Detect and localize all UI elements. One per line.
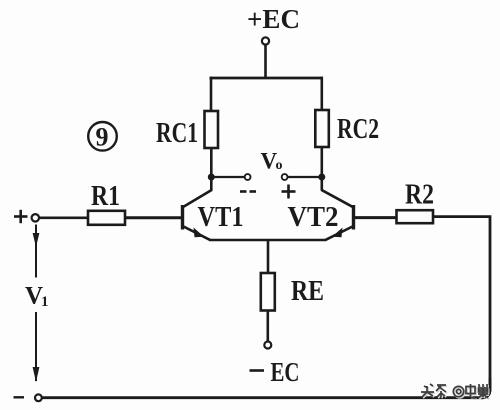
terminal output left [245, 174, 251, 180]
bottom minus sign [14, 396, 25, 398]
wire RC1 top [210, 77, 213, 111]
wire RC2 bottom [320, 147, 323, 191]
arrow VT2 emitter [332, 228, 343, 238]
node junction left collector [208, 174, 215, 181]
wire input to R1 [39, 217, 88, 220]
label Vo [261, 149, 283, 174]
svg-text:RC1: RC1 [156, 117, 198, 149]
resistor R1 [88, 211, 125, 225]
terminal +EC [262, 37, 269, 44]
transistor VT2 [321, 190, 353, 240]
arrow Vi lower [33, 367, 40, 382]
arrow Vi upper [33, 233, 40, 247]
wire Vi lower segment [35, 312, 37, 381]
svg-text:R1: R1 [91, 181, 120, 212]
svg-text:o: o [276, 158, 283, 173]
watermark 头条@电巢 [419, 378, 490, 399]
arrow VT1 emitter [194, 228, 205, 238]
label Vi [25, 283, 49, 311]
terminal output right [282, 174, 288, 180]
wire RC1 bottom [210, 148, 213, 191]
svg-text:VT2: VT2 [288, 202, 339, 233]
wire bottom rail [42, 396, 484, 399]
polarity plus mark [282, 185, 296, 199]
terminal input top [32, 214, 39, 221]
polarity minus marks [240, 190, 256, 193]
svg-text:1: 1 [41, 294, 49, 310]
transistor VT1 [183, 190, 213, 240]
wire emitter tap [267, 240, 270, 273]
wire top rail [210, 77, 323, 80]
svg-text:9: 9 [96, 123, 109, 152]
wire base VT2 [355, 216, 397, 219]
wire base VT1 [125, 216, 182, 219]
svg-text:RE: RE [291, 275, 324, 307]
resistor RC1 [205, 111, 219, 148]
terminal -EC [264, 342, 271, 349]
svg-text:EC: EC [271, 357, 300, 387]
wire RE bottom [266, 311, 269, 342]
wire +EC down [264, 45, 267, 78]
resistor RE [261, 273, 275, 311]
wire output right [288, 176, 322, 178]
wire output left [211, 176, 244, 178]
wire RC2 top [320, 77, 323, 110]
input plus sign [14, 210, 28, 223]
svg-text:R2: R2 [405, 180, 434, 211]
resistor RC2 [315, 110, 329, 147]
resistor R2 [397, 210, 434, 223]
svg-text:VT1: VT1 [198, 202, 244, 233]
wire emitter rail [210, 239, 326, 242]
terminal input bottom [35, 394, 42, 401]
node label 9 [88, 122, 117, 152]
wire Vi upper segment [35, 225, 37, 278]
svg-text:+EC: +EC [247, 4, 300, 34]
node junction right collector [318, 174, 325, 181]
label -EC [250, 357, 300, 387]
wire R2 right and right rail [433, 217, 490, 398]
svg-text:RC2: RC2 [337, 113, 379, 145]
